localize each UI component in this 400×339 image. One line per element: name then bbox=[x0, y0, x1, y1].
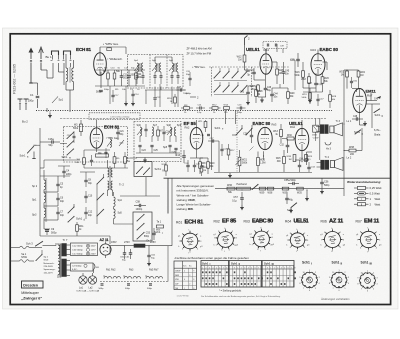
capacitor C9 bbox=[44, 226, 57, 235]
wafer Sch1 II bbox=[329, 270, 350, 292]
heater coil 5 bbox=[146, 277, 154, 279]
tube EM11 label bbox=[366, 89, 377, 98]
resistor W16 group bbox=[295, 62, 305, 88]
switch Sch1c3 bbox=[232, 71, 239, 78]
choke Dr1 bbox=[110, 240, 172, 248]
bandfilter caps bottom bbox=[138, 145, 177, 156]
mains text bbox=[44, 256, 56, 274]
capacitor C56 bbox=[320, 178, 330, 194]
dipole bracket 1 bbox=[51, 51, 60, 60]
transformer Tr7 secondary 2 bbox=[62, 259, 70, 277]
resistor W12 row bbox=[209, 105, 221, 114]
capacitor C5 bbox=[56, 179, 63, 192]
tube ECH81 label bbox=[76, 47, 92, 52]
wire osc top link bbox=[44, 160, 80, 168]
IF bandfilter dashed box bbox=[128, 55, 184, 89]
tone filter dashed box bbox=[263, 42, 287, 54]
label Sa1 bbox=[21, 253, 27, 259]
capacitor C58 bbox=[134, 201, 146, 212]
wire IF to EF85 bbox=[145, 57, 185, 90]
note 785V bbox=[103, 42, 119, 46]
tube UEL51 (output) bbox=[260, 54, 272, 74]
socket UEL51 bbox=[286, 229, 310, 253]
tube EABC80 label bbox=[311, 47, 339, 52]
wire UEL51 mid bbox=[295, 120, 309, 160]
volume pot dotted link bbox=[236, 111, 238, 173]
wafer Sch1 I bbox=[299, 270, 320, 292]
wire heater bus left bbox=[11, 177, 164, 179]
cluster right of UEL51 bbox=[287, 155, 316, 173]
wire osc vertical pair bbox=[40, 128, 44, 226]
resistor W10 bbox=[200, 158, 215, 174]
label 500p bbox=[96, 90, 103, 93]
tube UEL51 label bbox=[246, 47, 269, 52]
resistor W39 bbox=[259, 187, 266, 194]
resistor W28b bbox=[329, 90, 337, 108]
legend 1 Watt bbox=[354, 197, 380, 201]
chassis dashed line bbox=[60, 117, 326, 119]
capacitor C47b bbox=[316, 94, 324, 106]
capacitor C40 group bbox=[246, 68, 256, 80]
mains fuse upper bbox=[11, 246, 43, 249]
info box upper bbox=[71, 243, 98, 256]
note table footnote bbox=[219, 290, 241, 293]
label row2 bbox=[104, 89, 140, 91]
tube UEL51 (pre) bbox=[295, 128, 309, 150]
resistor W35 bbox=[297, 187, 304, 194]
legend Rö4 UEL51 bbox=[285, 219, 309, 225]
switch Sch1d2 bbox=[223, 85, 230, 92]
diode arrow EABC80 bbox=[250, 147, 254, 151]
wire drop x178 bbox=[177, 90, 179, 107]
legend Rö1 ECH81 bbox=[176, 220, 204, 226]
wire mid-top right bbox=[248, 60, 295, 90]
lamp La2 bbox=[88, 273, 96, 284]
switch Sch1g right bbox=[372, 104, 384, 128]
tube UEL51 II label bbox=[289, 121, 303, 129]
ground chain right bbox=[305, 189, 309, 200]
capacitor C54 bbox=[299, 152, 308, 165]
cap C14 stub bbox=[131, 90, 139, 106]
bandfilter bottom wires bbox=[136, 153, 180, 162]
note Hz bbox=[0, 0, 1, 1]
antenna A1 symbol bbox=[29, 48, 34, 84]
border frame bbox=[10, 34, 390, 305]
resistor W24 group bbox=[357, 70, 366, 89]
heater chain line bbox=[100, 281, 168, 283]
wire osc caps bbox=[40, 176, 70, 220]
tube EABC80 II label bbox=[253, 121, 277, 127]
switch Sch1h bbox=[287, 203, 297, 213]
switch box Sch1 I bbox=[133, 212, 163, 241]
separator line horizontal bbox=[164, 177, 391, 179]
resistor W18 group bbox=[301, 73, 310, 92]
capacitor C1 bbox=[28, 83, 40, 104]
switch in chain bbox=[252, 184, 259, 190]
wire antenna jog bbox=[41, 63, 71, 85]
coil Tr1 stack bbox=[32, 170, 47, 226]
note ZF frequencies bbox=[187, 47, 213, 56]
wire drop x110 bbox=[109, 86, 111, 104]
wire x172 drop bbox=[171, 178, 173, 246]
wire grid bus ECH81 bbox=[95, 70, 145, 88]
fine print date bbox=[177, 294, 190, 297]
heater coil 4 bbox=[133, 277, 141, 279]
capacitor C37 group bbox=[308, 73, 323, 92]
table switch positions bbox=[201, 261, 296, 288]
resistor W28 below UEL51 bbox=[255, 86, 264, 103]
heater coil 3 bbox=[124, 277, 132, 279]
capacitor C53 bbox=[144, 228, 156, 240]
switch osc 2 bbox=[68, 216, 75, 222]
capacitor C55a bbox=[284, 179, 299, 185]
switch Sch1e bbox=[215, 126, 243, 136]
FM box dashed bbox=[64, 127, 128, 163]
IF coil set 2 bbox=[152, 60, 163, 84]
FM box inner caps bbox=[67, 131, 108, 158]
title Mittelsuper bbox=[21, 291, 39, 295]
tube AZ11 label bbox=[100, 238, 109, 242]
coil Sp2 input transformer bbox=[66, 54, 74, 90]
socket Bu2 stubs bbox=[18, 99, 29, 124]
wafer Sch1 III bbox=[357, 270, 378, 292]
socket EF85 bbox=[213, 228, 238, 253]
note 86V bbox=[192, 66, 205, 69]
tube AZ11 (rectifier) bbox=[100, 242, 111, 259]
drawing number (vertical text) bbox=[13, 64, 17, 94]
capacitor C6 bbox=[56, 193, 64, 206]
wire mains bbox=[55, 243, 57, 246]
wire EM11 top bbox=[344, 70, 359, 71]
legend title bbox=[347, 180, 381, 184]
resistor W29 bbox=[287, 88, 296, 104]
capacitor C57 bbox=[232, 189, 244, 209]
wafer Sch1 II label bbox=[332, 261, 343, 266]
capacitor C42 below UEL51 bbox=[240, 86, 250, 105]
transformer Tr4 bbox=[317, 156, 330, 169]
resistor W14 row bbox=[224, 105, 230, 114]
switch Sch1d1 bbox=[214, 85, 221, 92]
wire speaker area bbox=[307, 124, 363, 152]
capacitor C12 col bbox=[84, 207, 93, 219]
wire heater runs bbox=[104, 246, 168, 282]
title Zwinger 6 bbox=[21, 297, 42, 301]
switch Sch1c4 bbox=[241, 71, 248, 78]
tube EABC80 (AF) bbox=[258, 127, 272, 149]
grid components UEL51 bbox=[276, 65, 290, 84]
resistor W23 group bbox=[339, 70, 358, 89]
switch Sch1c1 bbox=[214, 71, 221, 78]
switch Sch1d4 bbox=[241, 85, 248, 92]
resistor W38 right bbox=[344, 146, 362, 156]
ratio detector parts bbox=[220, 144, 235, 160]
capacitor C28 bbox=[243, 128, 253, 143]
wafer Sch1 III label bbox=[361, 261, 373, 266]
switch osc 3 bbox=[97, 174, 104, 185]
table band connections bbox=[174, 257, 202, 290]
capacitor C48 bbox=[352, 116, 363, 121]
tube EABC80 (det) bbox=[311, 54, 325, 76]
resistor W3 FM bbox=[73, 120, 83, 136]
wire osc col bbox=[80, 172, 97, 224]
wire drop x155 bbox=[153, 87, 161, 108]
resistor W37 bbox=[282, 187, 289, 194]
switch Sch1g lower bbox=[354, 130, 364, 136]
tuning drive dashed box bbox=[89, 113, 140, 120]
heater chain wire bbox=[215, 188, 344, 190]
resistor W18 pre-separator bbox=[200, 162, 208, 176]
lamp La1 bbox=[79, 273, 87, 284]
capacitor C11 bbox=[120, 70, 130, 86]
wire EABC mid bbox=[214, 111, 312, 178]
electrolytic C62 bbox=[147, 245, 156, 266]
label W6 bbox=[104, 68, 142, 70]
resistor W13 mid bbox=[273, 124, 282, 143]
capacitor C8 col bbox=[84, 175, 92, 187]
tube ECH81 (FM) bbox=[90, 128, 103, 148]
switch Sch1f2 bbox=[251, 125, 253, 129]
AVC dashed line bbox=[209, 66, 290, 68]
switch Sch1f bbox=[242, 125, 252, 136]
wire UEL51 top bbox=[265, 49, 267, 54]
capacitor C13 left of EF85 bbox=[176, 150, 186, 163]
transformer Tr7 primary bbox=[58, 243, 61, 278]
speaker Ls2 bbox=[330, 157, 352, 171]
heater cap 1 bbox=[99, 284, 105, 290]
legend 2 Watt bbox=[354, 202, 380, 206]
separator line vertical bbox=[167, 178, 169, 213]
electrolytic C60 C61 bbox=[120, 245, 132, 261]
wire to FM 2 bbox=[160, 84, 199, 107]
maker box Dresden bbox=[22, 281, 44, 288]
capacitor C12 cluster bbox=[127, 70, 135, 86]
wafer Sch1 I label bbox=[302, 261, 312, 266]
note 88V bbox=[106, 136, 120, 140]
resistor W8 row bbox=[181, 105, 193, 114]
resistor W36 bbox=[227, 184, 235, 194]
heater coil 1 bbox=[104, 277, 112, 282]
capacitor C33 pre-separator bbox=[185, 160, 190, 172]
transformer Tr7 secondary 1 bbox=[62, 244, 70, 257]
legend Rö3 EABC80 bbox=[244, 219, 274, 225]
cap C32 mid bbox=[280, 139, 290, 153]
note Wellensch bbox=[107, 57, 123, 61]
EM11 target wires bbox=[366, 93, 381, 104]
electrolytic 40u bbox=[285, 189, 293, 204]
resistor W30 mid bbox=[282, 135, 295, 140]
switch Sch3 bbox=[26, 241, 56, 246]
wire drop x126 bbox=[124, 86, 128, 106]
legend Rö6 AZ11 bbox=[321, 219, 345, 225]
resistor W38b bbox=[267, 187, 274, 194]
IF coil set 1 bbox=[134, 60, 145, 84]
ground at gang line bbox=[48, 111, 52, 117]
capacitor C7 bbox=[56, 207, 64, 220]
wire top-left bus bbox=[31, 83, 74, 112]
capacitor C21b bbox=[188, 72, 191, 86]
socket EABC80 bbox=[249, 228, 274, 253]
switch box Sch1 mid bbox=[134, 162, 164, 177]
tube ECH81 II label bbox=[104, 125, 120, 130]
cap C17 stub bbox=[111, 90, 119, 102]
mains fuse lower bbox=[11, 260, 35, 263]
resistor W1k bbox=[76, 222, 85, 236]
dipole bracket 2 bbox=[63, 51, 72, 60]
capacitor C26 pre-separator bbox=[193, 160, 201, 172]
legend 0,25 Watt bbox=[354, 186, 382, 190]
cathode group UEL51 bbox=[250, 73, 272, 97]
wire ECH81 top bbox=[100, 47, 126, 54]
switch Sch1a bbox=[20, 145, 41, 158]
resistor W10b bbox=[167, 94, 176, 107]
tube EM11 (eye) bbox=[353, 89, 367, 113]
info box lower bbox=[71, 263, 94, 271]
bandfilter coils 2 bbox=[167, 124, 182, 142]
legend Rö7 EM11 bbox=[356, 219, 381, 225]
wire phono bbox=[110, 196, 157, 255]
switch osc 5 bbox=[97, 209, 104, 216]
wire B+ right vertical bbox=[343, 70, 344, 196]
capacitor C44 below UEL51 bbox=[270, 88, 278, 102]
heater coil 2 bbox=[113, 277, 121, 279]
tube EF85 (IF amp) bbox=[190, 128, 203, 150]
capacitor C35 bbox=[290, 53, 300, 67]
wire drop x172 bbox=[171, 87, 173, 105]
wire UEL51 area bbox=[245, 44, 284, 102]
switch osc 4 bbox=[97, 193, 104, 200]
wire drop x146 bbox=[145, 90, 147, 104]
tuning gang dotted line bbox=[36, 110, 332, 112]
resistor W19b bbox=[302, 88, 312, 104]
switch Sa1 arm bbox=[36, 250, 43, 261]
pickup Ta1 bbox=[156, 221, 164, 232]
detector diode wires bbox=[303, 62, 327, 103]
volume pot W21 bbox=[236, 150, 248, 172]
switch Sch1d3 bbox=[232, 85, 239, 92]
tube EF85 label bbox=[184, 121, 197, 129]
heater cap 2 bbox=[125, 284, 131, 290]
wire mid bus bbox=[120, 158, 160, 196]
wire EABC80 top bbox=[317, 50, 319, 54]
capacitor C21 bbox=[116, 126, 124, 140]
heater coil 6 bbox=[155, 277, 163, 279]
socket EM11 bbox=[356, 228, 382, 254]
note table fineprint bbox=[201, 295, 281, 298]
wire osc to mixer bbox=[40, 226, 110, 244]
resistor W12 bbox=[237, 45, 246, 70]
switch matrix wires bbox=[214, 68, 247, 95]
antenna A2 symbol bbox=[39, 47, 44, 70]
resistor W22 bbox=[257, 152, 266, 173]
heater labels bbox=[106, 269, 159, 272]
trimmer Sp1 top bbox=[52, 97, 64, 104]
wire EF85 bbox=[190, 118, 212, 170]
resistor W9 below EF85 bbox=[199, 158, 206, 174]
label Sch1B bbox=[76, 217, 86, 222]
EM11 cathode wires bbox=[352, 89, 381, 137]
switch Sch1c2 bbox=[223, 71, 230, 78]
capacitor C19 700p bbox=[176, 87, 189, 95]
switch matrix box bbox=[212, 67, 252, 97]
coil Sp trimmer right bbox=[107, 139, 112, 147]
label C20 bbox=[186, 71, 192, 95]
note changes reserved bbox=[320, 297, 350, 301]
rectifier GR2 bbox=[94, 264, 100, 274]
resistor W3 cluster bbox=[103, 70, 121, 86]
transformer Tr3 bbox=[316, 118, 340, 160]
socket ECH81 bbox=[178, 230, 203, 255]
coil Sp4 Sp5 bbox=[114, 192, 123, 224]
lamp labels bbox=[77, 286, 100, 292]
resistor Wheizband bbox=[237, 183, 251, 190]
bandfilter coils bbox=[137, 124, 158, 142]
socket AZ11 bbox=[320, 228, 346, 253]
bandfilter resistors bbox=[157, 126, 171, 141]
capacitor 220p osc bbox=[58, 166, 72, 178]
capacitor C40 row bbox=[196, 105, 205, 114]
voltage labels rect bbox=[124, 241, 156, 244]
capacitor C16a bbox=[46, 138, 60, 147]
FM bottom cluster bbox=[75, 140, 131, 168]
capacitor C51 box bbox=[312, 118, 319, 141]
wire Sch1a to C16a bbox=[40, 141, 46, 143]
socket Bu1 label bbox=[46, 55, 53, 59]
resistor W20 group bbox=[321, 73, 329, 92]
legend 0,5 Watt bbox=[354, 192, 380, 196]
note viewing direction bbox=[200, 256, 249, 260]
resistor W4 bbox=[135, 70, 143, 86]
resistor W16 at separator bbox=[162, 162, 168, 176]
IF coil set 3 bbox=[169, 60, 180, 84]
capacitor C10 col bbox=[84, 191, 93, 203]
speaker Ls1 bbox=[330, 120, 352, 136]
transformer Tr2 bbox=[108, 160, 125, 196]
heater cap 3 bbox=[147, 284, 153, 290]
legend Rö2 EF85 bbox=[214, 219, 238, 225]
FM dipole stub bbox=[245, 36, 251, 46]
tube ECH81 (mixer) bbox=[94, 53, 107, 76]
switch Sch1b triple bbox=[60, 132, 74, 160]
capacitor C27 bbox=[208, 138, 219, 143]
wire FM stage bbox=[84, 120, 128, 168]
voltage note text bbox=[177, 184, 215, 211]
transformer Tr7 label bbox=[63, 238, 68, 242]
resistor W15 mid bbox=[276, 150, 286, 172]
jack hooks Hz bbox=[325, 142, 332, 150]
bandfilter dashed box bbox=[134, 122, 181, 162]
capacitor C16 row bbox=[237, 105, 246, 114]
switch osc 1 bbox=[68, 204, 75, 214]
resistor W11 right top bbox=[198, 120, 210, 137]
